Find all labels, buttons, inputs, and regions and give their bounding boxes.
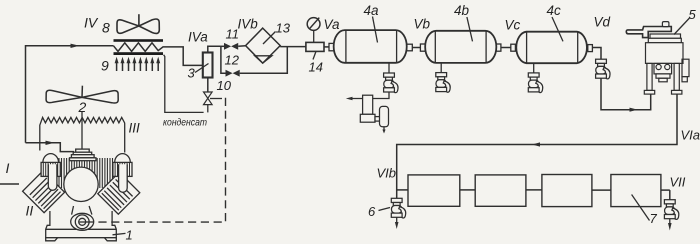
auto drain device body	[360, 95, 388, 127]
svg-text:Vb: Vb	[414, 17, 431, 32]
drain valve under 4b	[436, 73, 450, 93]
wire: lower intake run into manifold	[26, 143, 75, 152]
wire: suction inlet I line	[0, 183, 19, 185]
condensate drain line	[164, 55, 204, 113]
pressure gauge Va	[307, 18, 320, 31]
leader 4b	[467, 17, 473, 41]
arrow on intake run	[46, 141, 55, 145]
main line filter to gauge unit 14	[280, 46, 306, 48]
valve 12	[226, 70, 240, 77]
nipple left 4a	[329, 43, 334, 50]
crankcase bulge	[71, 213, 94, 230]
nipple right 4a	[407, 44, 413, 51]
fan 2 (4-blade propeller over coil)	[46, 86, 118, 103]
svg-text:II: II	[26, 203, 34, 219]
oil sight plug	[75, 215, 89, 229]
dashed control line to compressor	[97, 98, 226, 222]
compressor 1 (V-type two-cylinder)	[23, 149, 140, 241]
drain valve Vd line	[596, 59, 610, 79]
junction riser to valve 12	[221, 46, 226, 73]
nipple left 4c	[511, 44, 516, 51]
svg-text:VIa: VIa	[681, 128, 700, 143]
svg-text:3: 3	[188, 66, 196, 81]
right head tube	[119, 164, 128, 192]
valve 11	[221, 45, 224, 47]
left head tube	[48, 164, 57, 190]
filter 13 (diamond with funnel)	[246, 28, 281, 63]
svg-text:I: I	[6, 160, 10, 176]
svg-text:12: 12	[225, 53, 240, 68]
svg-text:10: 10	[217, 78, 232, 93]
nipple left 4b	[420, 44, 425, 51]
air reservoir 4a	[334, 30, 407, 63]
dryer box 2	[475, 175, 526, 206]
drain valve under 4c	[528, 73, 542, 93]
leader 5	[674, 18, 690, 35]
drain valve under 4a	[384, 73, 398, 93]
svg-text:9: 9	[101, 58, 109, 74]
right cylinder head	[113, 154, 132, 177]
muffler outlet	[383, 127, 385, 131]
leader 3	[195, 64, 209, 73]
crankcase circle	[64, 167, 98, 201]
aftercooler 9 top bar	[114, 39, 164, 42]
air reservoir 4c	[516, 32, 587, 64]
aftercooler zigzag pipe	[114, 43, 203, 66]
svg-text:1: 1	[126, 228, 133, 243]
dryer box 1	[408, 175, 460, 206]
svg-text:7: 7	[650, 211, 658, 226]
drain valve VII blow-off	[664, 200, 678, 220]
arrow on top line	[71, 44, 80, 48]
stem rect3 bottom to valve 10	[207, 78, 209, 93]
unit 14	[306, 42, 324, 51]
regulator 5 handle lever	[626, 27, 671, 38]
wire: left riser loop from intake manifold to aftercooler	[26, 46, 114, 143]
fan 2 shaft to manifold	[81, 112, 83, 149]
dryer box 4	[611, 175, 661, 207]
valve 10 bottom drain to condensate	[207, 105, 209, 113]
svg-text:2: 2	[78, 99, 87, 115]
leader 4a	[373, 17, 378, 43]
bypass line valve 12 to junction	[240, 47, 288, 73]
left cylinder II	[23, 171, 65, 213]
nipple right 4b	[496, 44, 501, 51]
svg-text:13: 13	[276, 21, 291, 36]
regulator 5 knob	[662, 22, 669, 27]
svg-text:Vc: Vc	[505, 18, 521, 33]
row connectors	[397, 189, 408, 191]
line 14 to tank 4a	[324, 46, 329, 48]
return line VIa	[397, 94, 677, 198]
svg-text:4a: 4a	[364, 3, 380, 18]
leader line label 1	[113, 233, 126, 234]
svg-text:8: 8	[102, 20, 110, 36]
svg-text:Vd: Vd	[594, 15, 611, 30]
svg-text:IVa: IVa	[188, 30, 208, 45]
air reservoir 4b	[425, 31, 496, 63]
compressor base	[46, 211, 117, 238]
cooling coil III (zigzag)	[40, 117, 125, 152]
drain pipe from 4a valve	[349, 92, 389, 99]
left cylinder head	[41, 154, 60, 177]
svg-text:14: 14	[309, 60, 323, 75]
leader 4c	[552, 17, 563, 41]
fan 8	[117, 14, 159, 33]
control line solid stub from valve 10	[210, 98, 222, 100]
svg-text:4b: 4b	[454, 3, 470, 18]
nipple right 4c	[588, 45, 593, 52]
svg-text:конденсат: конденсат	[163, 117, 207, 129]
line Vd	[592, 48, 601, 60]
svg-text:5: 5	[689, 7, 697, 22]
svg-text:Va: Va	[324, 17, 341, 32]
dryer box 3	[542, 175, 592, 207]
neck below crankcase	[72, 206, 92, 215]
aftercooler 9 bottom bar	[114, 52, 164, 55]
svg-text:III: III	[129, 121, 141, 136]
base feet	[46, 238, 58, 241]
leader 7	[632, 195, 650, 221]
oil separator 3	[203, 53, 213, 78]
pressure regulator 5	[626, 22, 689, 95]
svg-text:4c: 4c	[547, 3, 562, 18]
svg-text:IV: IV	[84, 15, 99, 31]
leader 13	[263, 32, 276, 45]
svg-text:IVb: IVb	[238, 17, 259, 32]
right cylinder	[98, 172, 140, 214]
svg-text:VII: VII	[670, 175, 686, 190]
intake manifold (stepped)	[70, 149, 97, 161]
svg-text:VIb: VIb	[377, 166, 397, 181]
valve 10 (vertical)	[204, 92, 213, 105]
drain valve 6 blow-off	[391, 198, 405, 218]
svg-text:6: 6	[368, 204, 376, 219]
cooling air arrows under 9	[115, 57, 161, 71]
stem rect3 top	[208, 46, 221, 52]
